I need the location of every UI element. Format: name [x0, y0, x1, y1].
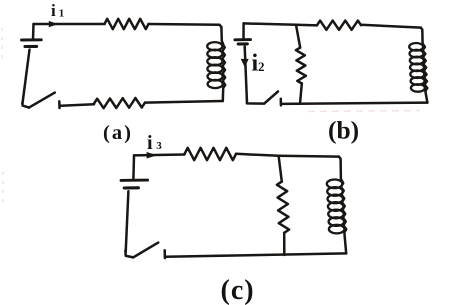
wire (c) top lead — [134, 153, 185, 156]
wire (b) right corner to inductor — [421, 28, 423, 44]
wire (b) top right lead — [361, 25, 421, 28]
svg-text:i: i — [147, 132, 153, 154]
wire (a) inductor to bottom-right corner — [222, 89, 225, 101]
resistor (b) top — [317, 21, 361, 30]
wire (b) top lead left — [244, 23, 296, 24]
svg-text:2: 2 — [258, 59, 265, 74]
resistor (c) middle — [277, 182, 289, 233]
inductor L (c) — [341, 179, 346, 233]
svg-text:3: 3 — [156, 140, 162, 152]
battery (b) negative plate — [238, 42, 247, 45]
wire (b) top lead to resistor — [296, 24, 317, 27]
wire (c) right corner to inductor — [339, 157, 341, 180]
switch (b) blade — [264, 92, 278, 104]
switch (c) blade — [133, 243, 158, 258]
resistor (b) middle — [296, 48, 306, 84]
wire (a) bottom lead to switch contact — [61, 104, 94, 106]
inductor L (b) — [423, 44, 428, 92]
svg-text:(a): (a) — [103, 122, 133, 144]
current arrow i3 — [147, 152, 158, 159]
wire (c) bottom-left corner — [125, 250, 133, 257]
wire (c) middle branch lower — [283, 233, 286, 255]
switch (a) contact — [58, 101, 61, 108]
wire (b) middle branch upper — [296, 25, 300, 48]
battery (c) negative plate — [124, 186, 138, 189]
wire (b) bottom wire — [282, 103, 428, 104]
wire (c) bottom wire — [166, 253, 346, 256]
battery (c) positive plate — [121, 179, 148, 182]
wire (b) top-left corner to battery — [242, 23, 245, 39]
wire (c) inductor to bottom-right corner — [344, 233, 346, 253]
inductor L (a) — [222, 44, 225, 89]
battery (a) negative plate — [25, 45, 37, 48]
wire (c) left side below battery — [126, 191, 129, 252]
switch (b) contact — [280, 99, 283, 106]
svg-text:(b): (b) — [328, 116, 359, 145]
wire (a) right corner to inductor — [220, 25, 224, 44]
wire (c) middle branch upper — [279, 156, 282, 182]
svg-text:(c): (c) — [221, 275, 255, 305]
wire (b) inductor to bottom-right corner — [425, 91, 427, 102]
wire (b) middle branch lower — [300, 84, 302, 104]
resistor (a) bottom — [94, 98, 145, 108]
wire (a) top-left corner to battery + — [32, 24, 35, 39]
wire (b) bottom-left corner — [247, 100, 264, 104]
resistor (c) top — [185, 148, 237, 160]
resistor (a) top — [105, 19, 149, 29]
scan artifact: faint pink dashes — [308, 111, 420, 112]
wire (a) top right lead — [149, 23, 220, 26]
wire (a) bottom right lead — [145, 101, 223, 103]
current arrow i2 — [241, 59, 249, 67]
wire (c) top middle lead — [236, 154, 279, 156]
battery (b) positive plate — [235, 38, 251, 41]
wire (c) top right lead — [279, 155, 339, 158]
wire (a) top lead — [34, 23, 105, 26]
switch (c) contact — [163, 250, 166, 258]
wire (a) left side below battery — [23, 50, 30, 104]
wire (b) left side below battery — [245, 47, 247, 101]
current arrow i1 — [49, 21, 58, 27]
wire (c) top-left corner to battery — [132, 155, 135, 179]
battery (a) positive plate — [22, 38, 42, 41]
wire (a) bottom-left corner — [22, 103, 29, 108]
switch (a) blade — [29, 93, 55, 108]
svg-text:i: i — [51, 1, 56, 20]
svg-text:1: 1 — [59, 7, 65, 19]
